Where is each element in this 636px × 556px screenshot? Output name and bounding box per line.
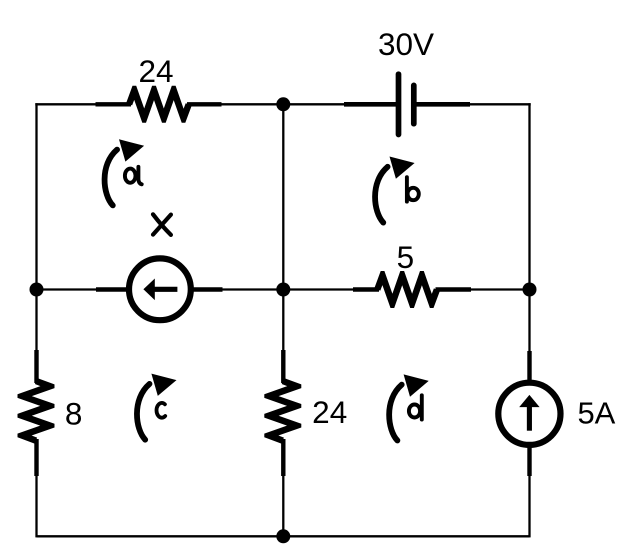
battery V1 30V: [344, 74, 470, 134]
wire left vertical lower: [35, 475, 37, 537]
node right-middle: [523, 283, 537, 297]
wire top-middle segment: [222, 103, 345, 105]
label a: [125, 167, 142, 185]
wire right vertical upper: [528, 103, 530, 352]
current source I1 5A (arrow up): [498, 351, 560, 476]
wire top-left segment: [35, 103, 95, 105]
label b: [407, 177, 419, 201]
mesh arrow c: [137, 374, 177, 440]
resistor R2 5: [353, 271, 471, 308]
current source X (arrow left): [96, 258, 223, 320]
label d: [409, 395, 422, 419]
svg-text:8: 8: [65, 396, 83, 432]
resistor R4 24 (middle): [264, 350, 301, 476]
node top-middle: [276, 97, 290, 111]
label X: [153, 214, 171, 235]
node left-middle: [30, 283, 44, 297]
mesh arrow b: [375, 157, 415, 223]
svg-text:30V: 30V: [378, 26, 434, 62]
wire bottom: [37, 535, 530, 537]
node center: [276, 283, 290, 297]
mesh arrow a: [105, 139, 145, 205]
wire left vertical upper: [35, 103, 37, 351]
wire middle horizontal left: [37, 288, 97, 290]
wire middle horizontal center: [223, 288, 354, 290]
wire middle horizontal right: [471, 288, 530, 290]
mesh arrow d: [389, 374, 429, 440]
resistor R3 8 (left): [18, 350, 55, 476]
wire right vertical lower: [528, 475, 530, 537]
svg-text:24: 24: [312, 394, 347, 430]
svg-text:24: 24: [138, 53, 173, 89]
wire middle vertical upper: [282, 104, 284, 351]
resistor R1 24 (top): [96, 86, 222, 123]
wire middle vertical lower: [282, 475, 284, 536]
svg-text:5A: 5A: [577, 395, 615, 430]
svg-text:5: 5: [397, 239, 415, 275]
node bottom-middle: [276, 529, 290, 543]
wire top-right segment: [470, 103, 531, 105]
label c: [157, 403, 166, 418]
